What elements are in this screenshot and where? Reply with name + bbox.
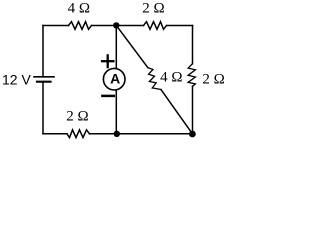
svg-text:2 Ω: 2 Ω xyxy=(66,109,88,125)
resistor R2 2ohm top-right zigzag xyxy=(144,22,167,30)
wire left rail lower xyxy=(42,82,44,134)
wire right rail upper xyxy=(192,26,194,64)
resistor R4 2ohm bottom zigzag xyxy=(67,130,90,138)
wire top-left horizontal xyxy=(43,25,69,27)
wire diagonal upper xyxy=(116,25,148,67)
wire middle vertical lower xyxy=(115,90,117,134)
wire middle vertical upper xyxy=(115,25,117,68)
svg-text:4 Ω: 4 Ω xyxy=(68,0,90,16)
ammeter A1 circle xyxy=(103,68,125,90)
svg-text:12 V: 12 V xyxy=(2,71,31,87)
resistor R5 4ohm diagonal zigzag xyxy=(148,68,161,90)
wire diagonal lower xyxy=(161,90,192,134)
resistor R3 2ohm right vertical zigzag xyxy=(188,64,195,87)
node bottom-right junction xyxy=(189,131,196,138)
wire right rail lower xyxy=(192,86,194,134)
battery V1 bottom plate (short) xyxy=(37,81,51,83)
wire top middle xyxy=(92,25,144,27)
svg-text:2 Ω: 2 Ω xyxy=(142,0,164,16)
svg-text:4 Ω: 4 Ω xyxy=(160,69,182,85)
battery V1 top plate (long) xyxy=(34,76,54,78)
wire top-right to corner xyxy=(167,25,193,27)
resistor R1 4ohm top-left zigzag xyxy=(69,22,92,30)
ammeter minus sign xyxy=(102,95,113,98)
wire bottom right xyxy=(90,133,193,135)
svg-text:2 Ω: 2 Ω xyxy=(202,72,224,88)
ammeter plus sign xyxy=(102,60,113,62)
wire bottom left xyxy=(43,133,67,135)
wire left rail upper xyxy=(42,26,44,77)
node top junction xyxy=(113,22,119,28)
svg-text:A: A xyxy=(110,70,120,86)
node bottom-middle junction xyxy=(114,131,120,137)
